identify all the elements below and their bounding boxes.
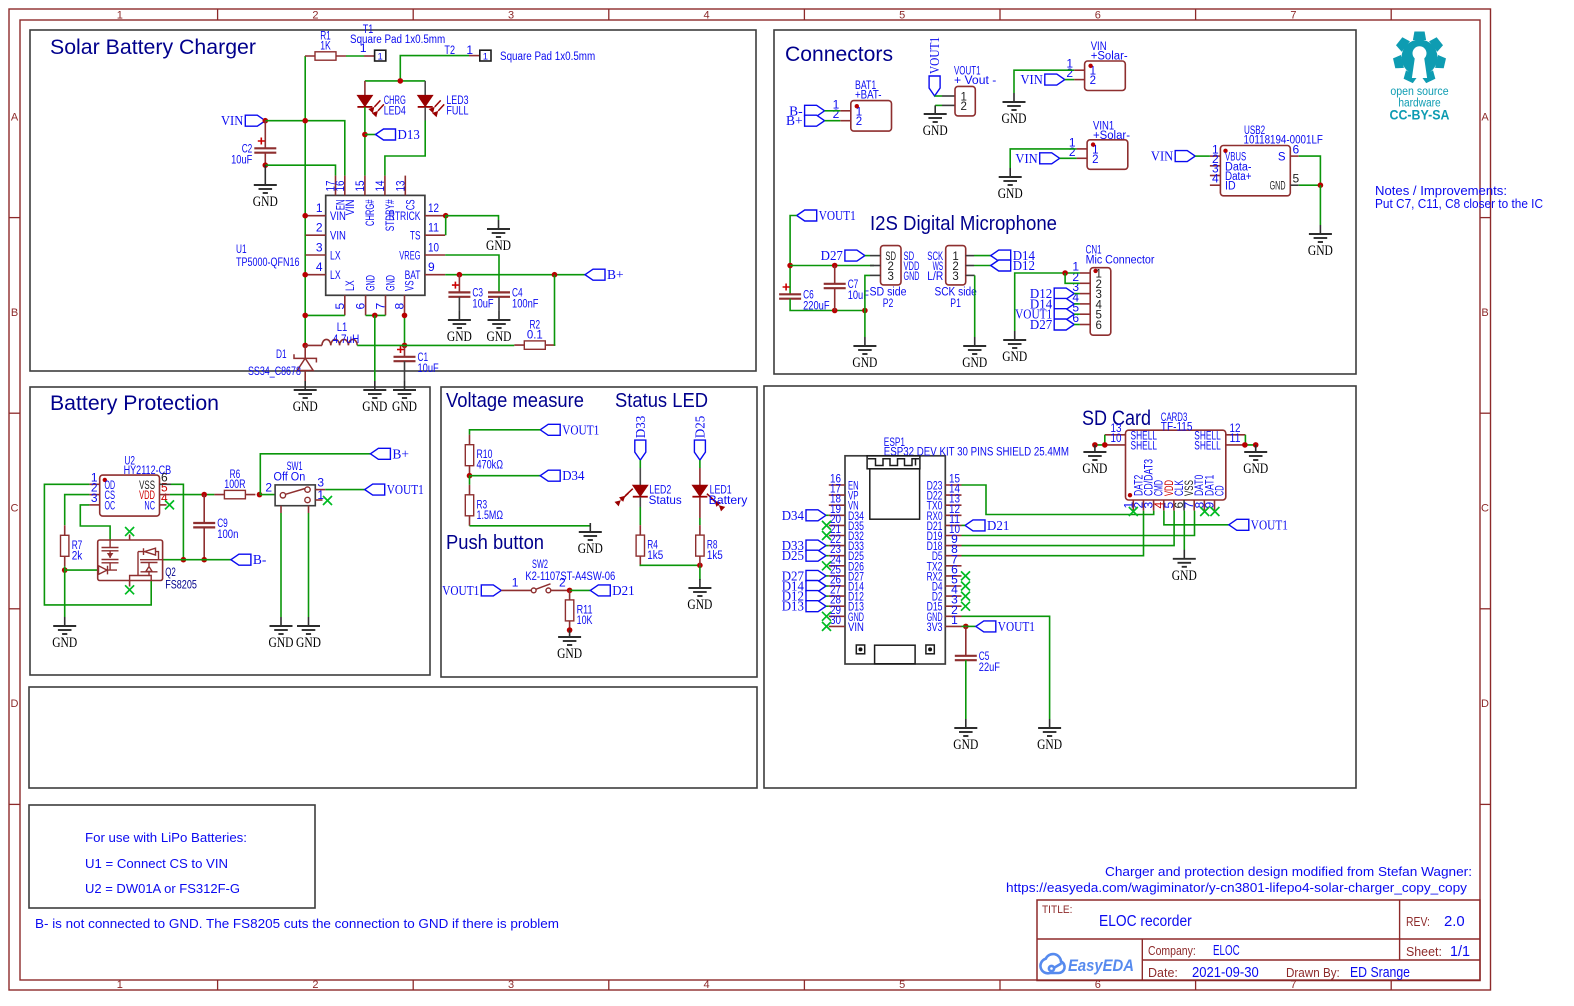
- svg-text:2: 2: [1069, 145, 1076, 159]
- svg-text:Square Pad 1x0.5mm: Square Pad 1x0.5mm: [350, 34, 445, 46]
- svg-text:6: 6: [1293, 142, 1300, 156]
- svg-text:Voltage measure: Voltage measure: [446, 390, 584, 412]
- svg-text:REV:: REV:: [1406, 914, 1430, 929]
- svg-text:2: 2: [559, 576, 566, 590]
- svg-text:Push button: Push button: [446, 532, 544, 554]
- svg-text:470kΩ: 470kΩ: [477, 460, 504, 472]
- svg-text:D34: D34: [782, 508, 805, 523]
- svg-text:2: 2: [1090, 75, 1096, 87]
- svg-text:100R: 100R: [224, 479, 245, 491]
- svg-text:CS: CS: [405, 199, 417, 210]
- svg-text:T2: T2: [444, 45, 455, 57]
- svg-text:LED4: LED4: [384, 104, 406, 118]
- svg-text:VREG: VREG: [399, 251, 420, 263]
- svg-text:D13: D13: [398, 127, 421, 142]
- svg-text:4: 4: [1212, 171, 1219, 185]
- svg-text:3: 3: [316, 241, 323, 255]
- svg-text:P1: P1: [950, 298, 961, 310]
- svg-text:16: 16: [333, 180, 347, 191]
- svg-text:GND: GND: [1037, 737, 1062, 753]
- svg-text:CHRG#: CHRG#: [365, 199, 377, 226]
- svg-text:VOUT1: VOUT1: [1251, 517, 1288, 532]
- svg-text:EasyEDA: EasyEDA: [1068, 957, 1134, 975]
- svg-text:8: 8: [393, 303, 407, 310]
- svg-text:GND: GND: [386, 275, 398, 291]
- svg-text:D: D: [1481, 698, 1489, 710]
- svg-text:VOUT1: VOUT1: [442, 583, 479, 598]
- svg-text:10uF: 10uF: [848, 290, 869, 302]
- svg-text:Date:: Date:: [1148, 965, 1178, 980]
- svg-text:VIN: VIN: [1015, 151, 1038, 166]
- svg-text:GND: GND: [904, 271, 920, 283]
- svg-text:GND: GND: [487, 329, 512, 345]
- svg-text:10uF: 10uF: [418, 363, 439, 375]
- svg-text:CD: CD: [1215, 485, 1227, 496]
- svg-text:GND: GND: [296, 635, 321, 651]
- svg-text:Put C7, C11, C8 closer to the: Put C7, C11, C8 closer to the IC: [1375, 196, 1543, 211]
- svg-text:Status: Status: [649, 493, 682, 507]
- svg-text:Charger and protection design: Charger and protection design modified f…: [1105, 864, 1472, 879]
- svg-text:open source: open source: [1390, 86, 1448, 98]
- svg-text:GND: GND: [293, 399, 318, 415]
- svg-text:11: 11: [428, 221, 439, 235]
- svg-text:VOUT1: VOUT1: [998, 619, 1035, 634]
- svg-text:Drawn By:: Drawn By:: [1286, 965, 1340, 980]
- svg-text:10: 10: [428, 241, 439, 255]
- svg-text:B-: B-: [253, 552, 267, 567]
- svg-text:2k: 2k: [72, 550, 83, 562]
- svg-text:0.1: 0.1: [527, 330, 543, 342]
- svg-text:1: 1: [512, 576, 519, 590]
- svg-text:Square Pad 1x0.5mm: Square Pad 1x0.5mm: [500, 51, 595, 63]
- svg-text:Status LED: Status LED: [615, 390, 708, 412]
- svg-text:12: 12: [428, 201, 439, 215]
- svg-text:ED Srange: ED Srange: [1350, 965, 1410, 981]
- svg-text:TF-115: TF-115: [1161, 422, 1193, 434]
- svg-text:3: 3: [91, 491, 98, 505]
- svg-text:SS34_C8678: SS34_C8678: [248, 366, 301, 378]
- svg-text:2: 2: [312, 10, 318, 22]
- svg-text:2: 2: [1092, 154, 1098, 166]
- svg-text:3: 3: [887, 271, 893, 283]
- svg-text:1k5: 1k5: [707, 550, 723, 562]
- svg-text:6: 6: [354, 303, 368, 310]
- svg-text:Battery: Battery: [709, 493, 748, 507]
- svg-text:VIN: VIN: [221, 113, 244, 128]
- svg-text:1: 1: [951, 613, 958, 627]
- svg-text:D25: D25: [692, 416, 707, 439]
- svg-text:GND: GND: [1002, 349, 1027, 365]
- svg-text:STDBY#: STDBY#: [385, 199, 397, 231]
- svg-text:22uF: 22uF: [979, 662, 1000, 674]
- svg-text:2.0: 2.0: [1444, 913, 1465, 930]
- svg-text:2: 2: [312, 979, 318, 991]
- svg-text:TP5000-QFN16: TP5000-QFN16: [236, 257, 300, 269]
- svg-text:1: 1: [117, 10, 123, 22]
- svg-text:10118194-0001LF: 10118194-0001LF: [1244, 135, 1323, 147]
- svg-text:Q2: Q2: [165, 567, 176, 579]
- svg-text:Connectors: Connectors: [785, 43, 893, 66]
- svg-text:7: 7: [1290, 10, 1296, 22]
- svg-text:VIN: VIN: [330, 231, 346, 243]
- svg-text:5: 5: [1293, 171, 1300, 185]
- svg-text:VIN: VIN: [848, 622, 864, 634]
- svg-text:6: 6: [1096, 320, 1102, 332]
- svg-text:7: 7: [374, 303, 388, 310]
- svg-text:B+: B+: [607, 267, 624, 282]
- svg-text:I2S Digital Microphone: I2S Digital Microphone: [870, 213, 1057, 235]
- svg-text:U1: U1: [236, 244, 247, 256]
- svg-text:OC: OC: [105, 500, 116, 512]
- svg-text:1k5: 1k5: [647, 550, 663, 562]
- svg-text:3: 3: [952, 271, 958, 283]
- svg-text:11: 11: [1230, 431, 1241, 445]
- svg-text:P2: P2: [883, 298, 894, 310]
- svg-text:https://easyeda.com/wagiminato: https://easyeda.com/wagiminator/y-cn3801…: [1006, 880, 1468, 895]
- svg-text:D33: D33: [633, 416, 648, 439]
- svg-text:+Solar-: +Solar-: [1093, 130, 1130, 142]
- svg-text:1: 1: [466, 43, 473, 57]
- svg-text:SD side: SD side: [870, 287, 907, 299]
- svg-text:GND: GND: [962, 355, 987, 371]
- svg-text:9: 9: [428, 260, 435, 274]
- svg-text:LX: LX: [330, 270, 341, 282]
- svg-text:TS: TS: [410, 231, 421, 243]
- svg-text:GND: GND: [1002, 111, 1027, 127]
- svg-text:D12: D12: [1013, 258, 1035, 273]
- svg-text:L/R: L/R: [927, 271, 943, 283]
- svg-text:10uF: 10uF: [231, 155, 252, 167]
- svg-text:GND: GND: [998, 186, 1023, 202]
- svg-text:Off On: Off On: [274, 472, 306, 484]
- svg-text:2: 2: [1066, 66, 1073, 80]
- svg-text:5: 5: [899, 979, 905, 991]
- svg-text:14: 14: [373, 180, 387, 191]
- svg-text:GND: GND: [366, 275, 378, 291]
- svg-text:+BAT-: +BAT-: [855, 90, 882, 102]
- svg-text:Company:: Company:: [1148, 943, 1196, 958]
- svg-text:NC: NC: [144, 500, 155, 512]
- svg-text:GND: GND: [1082, 461, 1107, 477]
- svg-text:L1: L1: [337, 322, 348, 334]
- svg-text:VIN: VIN: [330, 211, 346, 223]
- svg-text:LX: LX: [345, 280, 357, 291]
- svg-text:2021-09-30: 2021-09-30: [1192, 965, 1259, 981]
- svg-text:3: 3: [508, 10, 514, 22]
- svg-text:SW2: SW2: [532, 559, 548, 571]
- svg-text:Mic Connector: Mic Connector: [1086, 255, 1155, 267]
- svg-text:100n: 100n: [217, 529, 238, 541]
- svg-text:4: 4: [704, 979, 710, 991]
- svg-text:D27: D27: [821, 248, 844, 263]
- svg-text:2: 2: [265, 481, 272, 495]
- svg-text:VIN: VIN: [1151, 149, 1174, 164]
- svg-text:GND: GND: [1308, 243, 1333, 259]
- svg-text:1: 1: [316, 201, 323, 215]
- svg-text:SHELL: SHELL: [1194, 440, 1221, 452]
- svg-text:2: 2: [856, 116, 862, 128]
- svg-text:GND: GND: [269, 635, 294, 651]
- svg-text:LX: LX: [330, 251, 341, 263]
- svg-text:GND: GND: [486, 238, 511, 254]
- svg-text:GND: GND: [1172, 568, 1197, 584]
- svg-text:GND: GND: [447, 329, 472, 345]
- svg-text:2: 2: [316, 221, 323, 235]
- svg-text:D1: D1: [276, 349, 287, 361]
- svg-text:+ Vout -: + Vout -: [954, 75, 996, 87]
- svg-text:B+: B+: [786, 113, 803, 128]
- svg-text:13: 13: [393, 180, 407, 191]
- svg-text:For use with LiPo Batteries:: For use with LiPo Batteries:: [85, 830, 247, 845]
- svg-text:B: B: [1481, 307, 1488, 319]
- svg-text:D34: D34: [562, 468, 585, 483]
- svg-text:30: 30: [830, 613, 841, 627]
- svg-text:2: 2: [961, 101, 967, 113]
- svg-text:1K: 1K: [320, 41, 331, 53]
- svg-text:GND: GND: [923, 123, 948, 139]
- svg-text:GND: GND: [557, 646, 582, 662]
- svg-text:GND: GND: [1270, 181, 1286, 193]
- svg-text:Battery Protection: Battery Protection: [50, 392, 219, 415]
- svg-text:2: 2: [833, 107, 840, 121]
- svg-text:1.5MΩ: 1.5MΩ: [477, 510, 504, 522]
- svg-text:4: 4: [704, 10, 710, 22]
- svg-text:1: 1: [117, 979, 123, 991]
- svg-text:SCK side: SCK side: [934, 287, 976, 299]
- svg-text:GND: GND: [953, 737, 978, 753]
- svg-text:D: D: [11, 698, 19, 710]
- svg-text:D21: D21: [612, 583, 634, 598]
- svg-text:C: C: [11, 503, 19, 515]
- svg-text:10K: 10K: [577, 615, 593, 627]
- svg-text:D27: D27: [1030, 317, 1053, 332]
- svg-text:15: 15: [353, 180, 367, 191]
- svg-text:4: 4: [316, 260, 323, 274]
- svg-text:S: S: [1278, 152, 1286, 164]
- svg-text:D25: D25: [782, 548, 805, 563]
- svg-text:ID: ID: [1225, 181, 1236, 193]
- svg-text:B+: B+: [392, 446, 409, 461]
- svg-text:VIN: VIN: [345, 200, 357, 216]
- svg-text:ELOC recorder: ELOC recorder: [1099, 913, 1192, 930]
- svg-text:TITLE:: TITLE:: [1042, 904, 1072, 916]
- svg-text:VOUT1: VOUT1: [562, 422, 599, 437]
- svg-text:B: B: [11, 307, 18, 319]
- svg-text:VIN: VIN: [1021, 72, 1044, 87]
- svg-text:GND: GND: [52, 635, 77, 651]
- svg-text:FS8205: FS8205: [165, 580, 197, 592]
- svg-text:+Solar-: +Solar-: [1091, 51, 1128, 63]
- svg-text:VS: VS: [405, 280, 417, 291]
- svg-text:A: A: [11, 111, 19, 123]
- svg-text:CC-BY-SA: CC-BY-SA: [1390, 108, 1450, 123]
- svg-text:GND: GND: [578, 541, 603, 557]
- svg-text:GND: GND: [392, 399, 417, 415]
- svg-text:B- is not connected to GND. Th: B- is not connected to GND. The FS8205 c…: [35, 916, 559, 931]
- svg-text:VOUT1: VOUT1: [387, 482, 424, 497]
- svg-text:GND: GND: [687, 597, 712, 613]
- svg-text:1/1: 1/1: [1450, 944, 1470, 960]
- svg-text:5: 5: [333, 303, 347, 310]
- svg-text:Sheet:: Sheet:: [1406, 944, 1442, 959]
- svg-text:FULL: FULL: [446, 104, 468, 118]
- svg-text:GND: GND: [362, 399, 387, 415]
- svg-text:U2 = DW01A or FS312F-G: U2 = DW01A or FS312F-G: [85, 881, 240, 896]
- svg-text:ELOC: ELOC: [1213, 943, 1240, 959]
- svg-text:GND: GND: [253, 194, 278, 210]
- svg-text:100nF: 100nF: [512, 299, 539, 311]
- svg-text:VOUT1: VOUT1: [927, 37, 942, 74]
- svg-text:A: A: [1481, 111, 1489, 123]
- svg-text:10uF: 10uF: [472, 299, 493, 311]
- svg-text:1: 1: [483, 51, 488, 62]
- svg-text:Solar Battery Charger: Solar Battery Charger: [50, 36, 256, 59]
- svg-text:K2-1107ST-A4SW-06: K2-1107ST-A4SW-06: [525, 571, 615, 583]
- svg-text:GND: GND: [852, 355, 877, 371]
- svg-text:6: 6: [1095, 10, 1101, 22]
- svg-text:D13: D13: [782, 599, 805, 614]
- svg-text:U1 = Connect CS to VIN: U1 = Connect CS to VIN: [85, 856, 228, 871]
- svg-text:5: 5: [899, 10, 905, 22]
- svg-text:VOUT1: VOUT1: [819, 208, 856, 223]
- svg-text:C: C: [1481, 503, 1489, 515]
- svg-text:3V3: 3V3: [927, 622, 943, 634]
- svg-text:1: 1: [378, 52, 383, 63]
- svg-text:SHELL: SHELL: [1131, 440, 1158, 452]
- svg-text:10: 10: [1111, 431, 1122, 445]
- svg-text:D21: D21: [987, 518, 1009, 533]
- svg-text:4.7uH: 4.7uH: [333, 334, 360, 346]
- svg-text:3: 3: [508, 979, 514, 991]
- svg-text:GND: GND: [1243, 461, 1268, 477]
